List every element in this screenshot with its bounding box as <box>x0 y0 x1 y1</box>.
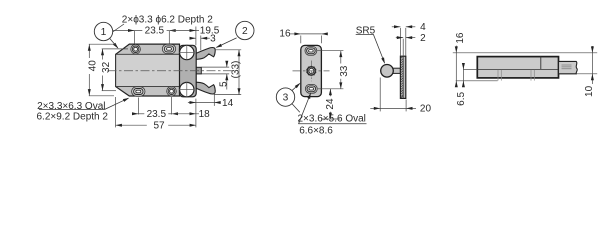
dimension 19.5 top <box>169 30 199 32</box>
balloon 2 <box>236 21 254 39</box>
dimension 3 top <box>190 37 196 39</box>
latch body silhouette <box>116 44 180 96</box>
strike hole vertical centerline <box>310 61 312 82</box>
svg-text:(33): (33) <box>231 61 242 79</box>
ball SR5 <box>381 65 394 78</box>
catch tongue <box>194 67 202 74</box>
svg-text:20: 20 <box>420 104 432 115</box>
bottom jaw <box>195 82 215 94</box>
svg-text:2×ϕ3.3 ϕ6.2 Depth 2: 2×ϕ3.3 ϕ6.2 Depth 2 <box>122 15 213 26</box>
extension lines 33 middle <box>317 50 343 52</box>
dimension 4 <box>392 26 401 28</box>
balloon 3 <box>276 88 294 106</box>
internal corner line right <box>540 56 542 69</box>
extension lines 20 <box>379 78 381 112</box>
svg-text:24: 24 <box>325 98 336 110</box>
extension line plate right edge top <box>195 27 197 46</box>
dimension 24 middle <box>329 89 331 97</box>
extension line oval bottom <box>137 98 139 115</box>
screw hole bottom <box>167 86 177 96</box>
svg-text:4: 4 <box>420 22 426 33</box>
strike plate side section <box>400 56 405 98</box>
strike oval callout leader <box>298 123 366 125</box>
svg-text:10: 10 <box>584 85 595 97</box>
dimension 33 middle <box>340 51 342 64</box>
latch body front face <box>116 54 180 86</box>
svg-text:2: 2 <box>420 33 426 44</box>
dimension 5 <box>226 61 228 67</box>
extension line screw hole bottom <box>171 97 173 115</box>
strike oval hole bottom <box>305 84 317 93</box>
hidden screw hole lines <box>497 70 499 81</box>
extension line jaw face <box>200 36 202 51</box>
dimension 20 <box>370 107 380 109</box>
pivot boss circle bottom <box>180 82 194 96</box>
svg-text:6.6×8.6: 6.6×8.6 <box>299 126 333 137</box>
stem <box>391 68 400 73</box>
dimension 57 bottom <box>115 97 117 127</box>
svg-text:40: 40 <box>87 60 98 72</box>
extension line jaw tip <box>213 93 215 106</box>
balloon 2 leader <box>216 38 236 48</box>
screw hole top-left <box>131 44 141 54</box>
dimension 6.5 right <box>462 64 464 87</box>
centerline front view <box>108 70 234 72</box>
svg-text:2: 2 <box>242 26 248 37</box>
svg-text:SR5: SR5 <box>356 26 376 37</box>
extension lines (33) dim <box>216 49 241 51</box>
svg-text:1: 1 <box>101 27 107 38</box>
top jaw <box>195 48 215 60</box>
dimension 2 <box>396 37 403 39</box>
extension lines 4 and 2 <box>399 28 401 56</box>
dimension 10 right <box>591 46 593 84</box>
dimension 40 left <box>88 44 90 58</box>
pivot plate <box>180 45 197 97</box>
svg-text:14: 14 <box>222 98 234 109</box>
extension line hole top-left <box>133 31 135 44</box>
dimension 14 <box>188 102 214 104</box>
svg-text:3: 3 <box>283 93 289 104</box>
svg-text:32: 32 <box>101 61 112 73</box>
balloon 3 text connector <box>292 104 300 113</box>
strike center hole serrated <box>307 67 315 75</box>
strike centerline <box>293 70 330 72</box>
oval callout leader <box>39 109 105 111</box>
oval hole top <box>162 44 175 53</box>
pivot boss circle top <box>180 45 194 59</box>
svg-text:3: 3 <box>210 34 216 45</box>
svg-text:16: 16 <box>455 32 466 44</box>
extension line 24 bottom <box>321 118 340 120</box>
svg-text:23.5: 23.5 <box>145 26 165 37</box>
flange line <box>559 73 598 75</box>
dimension 23.5 bottom <box>133 113 145 115</box>
svg-text:57: 57 <box>153 121 165 132</box>
dimension 18 bottom <box>172 113 199 115</box>
svg-text:6.2×9.2 Depth 2: 6.2×9.2 Depth 2 <box>37 112 109 123</box>
top reference line <box>453 52 597 54</box>
svg-text:6.5: 6.5 <box>456 92 467 106</box>
svg-text:16: 16 <box>279 29 291 40</box>
strike plate <box>301 45 322 96</box>
leader text to balloon 1 <box>112 24 124 33</box>
internal flange line <box>463 68 477 70</box>
balloon 3 leader <box>292 84 300 91</box>
dimension 32 left <box>102 49 104 60</box>
svg-text:5: 5 <box>218 81 229 87</box>
dimension 16 right <box>455 46 457 87</box>
dimension 23.5 top <box>113 30 142 32</box>
balloon 1 leader <box>110 39 118 48</box>
latch side body <box>477 57 558 78</box>
oval hole bottom-left <box>132 87 145 96</box>
dimension (33) <box>238 50 240 95</box>
svg-text:23.5: 23.5 <box>147 109 167 120</box>
extension line oval top <box>168 31 170 44</box>
svg-text:33: 33 <box>339 65 350 77</box>
svg-text:2×3.3×6.3 Oval: 2×3.3×6.3 Oval <box>37 101 105 112</box>
strike oval hole top <box>305 46 317 55</box>
balloon 1 <box>94 22 112 40</box>
plunger <box>559 61 578 73</box>
svg-text:18: 18 <box>199 109 211 120</box>
extension line plate right bottom <box>195 99 197 128</box>
extension lines 5 dim <box>202 66 230 68</box>
bottom reference line <box>456 80 498 82</box>
